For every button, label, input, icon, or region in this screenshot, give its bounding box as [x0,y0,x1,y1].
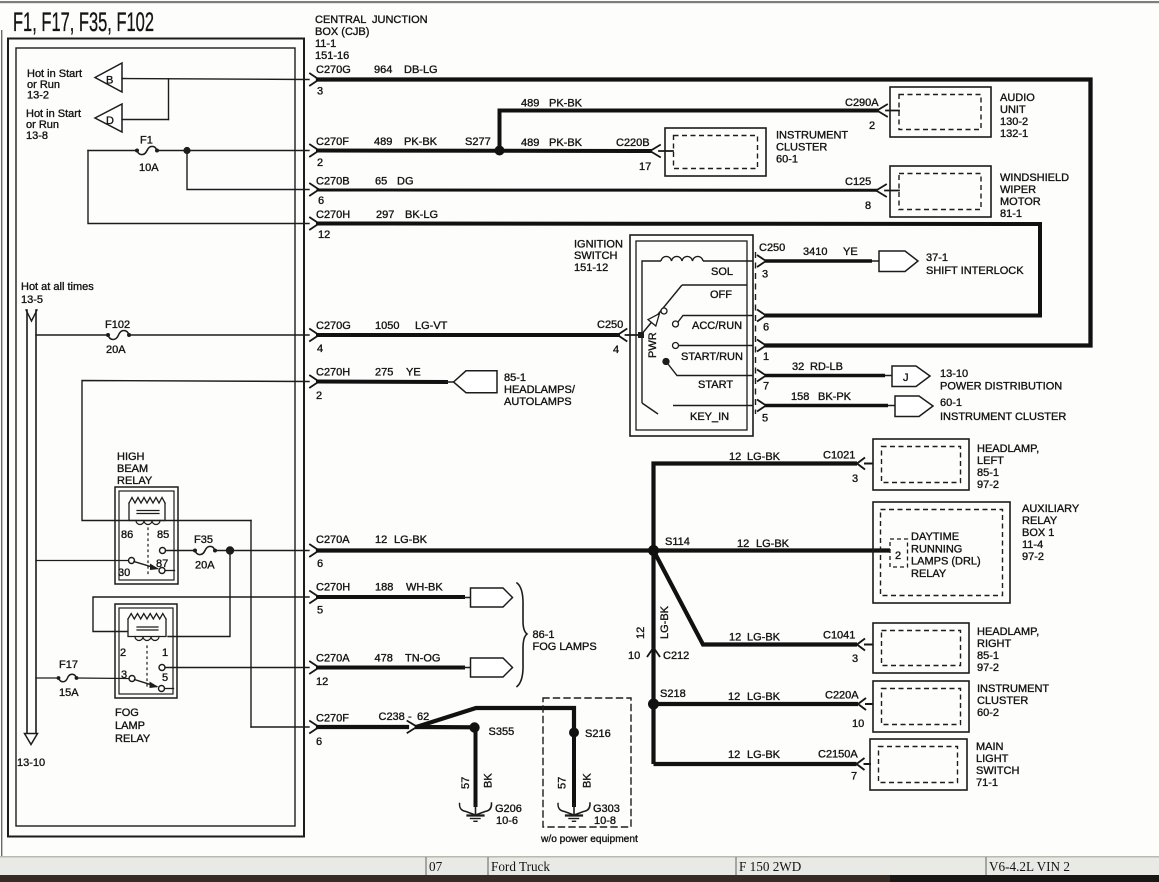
wire left branch down to C270H row [88,151,309,224]
svg-text:7: 7 [763,381,769,393]
svg-text:LEFT: LEFT [977,455,1004,467]
svg-text:3410: 3410 [803,246,827,258]
svg-text:12: 12 [635,627,647,639]
label Hot in Start or Run 13-2 [27,68,82,102]
connector chevron fog lamp feed 2 [471,658,513,677]
svg-text:C270G: C270G [316,64,351,76]
svg-text:3: 3 [852,653,858,665]
svg-text:8: 8 [865,200,871,212]
connector arrow C212 pin 10 [647,648,660,658]
svg-text:3: 3 [762,269,768,281]
svg-text:1: 1 [162,647,168,659]
wire B to C270G pin3 [122,79,309,80]
svg-text:SHIFT INTERLOCK: SHIFT INTERLOCK [926,265,1024,277]
svg-text:KEY_IN: KEY_IN [690,411,729,423]
connector arrow C270A pin 6 [310,545,319,557]
svg-text:97-2: 97-2 [977,662,999,674]
connector arrow C270H pin 2 [310,376,319,388]
svg-text:START/RUN: START/RUN [681,351,743,363]
svg-text:B: B [106,75,113,87]
svg-text:AUDIO: AUDIO [1000,92,1035,104]
relay K2 contact 1 [159,665,165,671]
svg-text:20A: 20A [106,344,126,356]
svg-text:17: 17 [639,161,651,173]
svg-text:LG-VT: LG-VT [415,320,448,332]
svg-text:RELAY: RELAY [117,475,153,487]
connector arrow C270H pin 12 [310,218,319,230]
svg-text:V6-4.2L VIN 2: V6-4.2L VIN 2 [989,859,1070,874]
relay K2 fog lamp box [115,604,177,698]
w/o power equipment dashed box [543,698,631,827]
svg-text:AUTOLAMPS: AUTOLAMPS [504,396,572,408]
wire F35 junction to fog relay coil [168,551,230,637]
svg-text:12: 12 [729,632,741,644]
svg-text:BEAM: BEAM [117,463,148,475]
svg-text:489: 489 [374,136,392,148]
label Hot in Start or Run 13-8 [26,108,81,142]
svg-text:CLUSTER: CLUSTER [977,695,1028,707]
svg-text:F1: F1 [140,135,153,147]
svg-text:MAIN: MAIN [976,741,1004,753]
connector arrow C250 pin 4 [618,329,642,341]
svg-text:85-1: 85-1 [977,467,999,479]
ignition KEY_IN blade [642,403,658,414]
relay K2 contact 3 [129,676,135,682]
ignition wiper blade [641,285,682,335]
svg-text:12: 12 [316,676,328,688]
svg-text:151-12: 151-12 [574,262,608,274]
ignition switch box [630,235,753,436]
relay K1 dotted divider [147,528,149,574]
wire 188 WH-BK to fog coil left [93,597,309,632]
svg-text:C2150A: C2150A [818,749,858,761]
svg-text:C212: C212 [663,650,689,662]
relay K2 contact 5 [159,686,165,692]
wire C270F row to S355 [318,725,407,729]
svg-text:CLUSTER: CLUSTER [776,142,827,154]
relay K2 coil [128,614,166,641]
connector arrow C220A pin 10 [858,698,874,710]
fuse F35 20A [193,534,309,572]
svg-text:C270H: C270H [316,209,350,221]
scan page left edge [1,30,2,856]
svg-text:PWR: PWR [647,332,659,358]
bottom status bar [0,856,1159,875]
ignition switch label [574,239,623,275]
svg-text:2: 2 [316,390,322,402]
svg-text:37-1: 37-1 [926,252,948,264]
svg-text:DB-LG: DB-LG [404,64,438,76]
svg-text:12: 12 [729,451,741,463]
connector chevron J 13-10 power distribution [892,366,930,387]
svg-text:6: 6 [318,195,324,207]
svg-text:C270F: C270F [316,713,349,725]
svg-text:HEADLAMPS/: HEADLAMPS/ [504,384,576,396]
svg-text:Hot at all times: Hot at all times [21,281,94,293]
svg-text:12: 12 [728,749,740,761]
svg-text:86: 86 [121,529,133,541]
wire 275 YE feed from relay coil [82,381,309,521]
svg-text:158: 158 [791,391,809,403]
svg-text:10: 10 [852,718,864,730]
connector arrow C270F pin 6 [310,721,319,733]
connector arrow C250 pin 6 [757,310,766,322]
svg-text:SWITCH: SWITCH [976,765,1019,777]
CJB outer box [8,39,304,837]
svg-text:BK-PK: BK-PK [818,391,852,403]
connector chevron 85-1 headlamps [454,371,498,393]
svg-text:86-1: 86-1 [533,629,555,641]
svg-text:11-4: 11-4 [1022,539,1043,551]
svg-text:S114: S114 [665,536,690,548]
svg-text:SOL: SOL [711,266,733,278]
svg-text:11-1: 11-1 [315,38,336,50]
svg-text:G303: G303 [593,803,620,815]
wire to main light switch [654,762,857,766]
svg-text:3: 3 [317,86,323,98]
svg-text:30: 30 [118,567,130,579]
label FOG LAMP RELAY [115,707,151,745]
svg-text:60-1: 60-1 [940,397,962,409]
wire S114 diagonal to headlamp right [654,551,858,645]
label Hot at all times 13-5 [21,281,94,306]
wire 12 LG-BK to S114 [318,548,654,552]
wire S114 right to DRL relay [654,548,891,552]
fuse F17 15A [36,659,129,699]
relay K1 high beam box [115,487,178,584]
svg-text:LG-BK: LG-BK [747,691,781,703]
svg-text:964: 964 [374,64,392,76]
wire S114 down to S218 [651,551,655,765]
ignition START/RUN contact [673,343,679,349]
svg-text:188: 188 [375,582,393,594]
svg-text:LAMP: LAMP [115,720,145,732]
wire HB coil right to C270F row [250,521,252,728]
svg-text:HEADLAMP,: HEADLAMP, [977,626,1039,638]
wire S114 up to headlamp left [654,464,858,551]
svg-text:85: 85 [157,529,169,541]
svg-text:489: 489 [521,98,539,110]
svg-text:HIGH: HIGH [117,451,145,463]
svg-text:RD-LB: RD-LB [810,361,843,373]
svg-text:132-1: 132-1 [1000,128,1028,140]
svg-text:5: 5 [162,672,168,684]
svg-text:1050: 1050 [375,320,399,332]
svg-text:BOX (CJB): BOX (CJB) [315,26,369,38]
connector chevron fog lamp feed 1 [471,588,513,607]
wire 478 TN-OG to fog lamps connector [318,666,463,670]
svg-text:85-1: 85-1 [977,650,999,662]
wire D horizontal [122,119,169,121]
ground G303 [558,803,620,827]
svg-text:C270H: C270H [316,582,350,594]
ignition OFF contact [682,284,747,286]
svg-text:HEADLAMP,: HEADLAMP, [977,443,1039,455]
connector arrow C1041 pin 3 [857,639,874,651]
wire 188 WH-BK to fog lamps connector [318,595,463,599]
wire 964 DB-LG : C270G3 right, down, to START/RUN pin1 [318,80,1091,346]
svg-text:10-6: 10-6 [496,815,518,827]
svg-text:32: 32 [792,361,804,373]
connector arrow C270G pin 3 [310,74,319,86]
svg-text:BK-LG: BK-LG [405,209,438,221]
audio unit box [890,87,991,137]
svg-text:F1, F17, F35, F102: F1, F17, F35, F102 [13,7,154,37]
svg-text:57: 57 [557,777,569,789]
svg-text:C270F: C270F [316,136,349,148]
svg-text:w/o power equipment: w/o power equipment [540,834,638,845]
svg-text:85-1: 85-1 [504,372,526,384]
svg-text:BK: BK [582,773,594,788]
svg-text:LG-BK: LG-BK [747,632,781,644]
svg-text:97-2: 97-2 [977,479,999,491]
svg-text:3: 3 [852,473,858,485]
svg-text:12: 12 [737,538,749,550]
svg-text:C270B: C270B [316,176,350,188]
ignition PWR node [638,332,644,338]
CJB inner box [16,48,295,826]
headlamp right box [873,623,969,673]
wire S218 to instrument cluster 60-2 [654,702,859,706]
relay K2 switch blade [135,680,157,687]
svg-text:13-10: 13-10 [940,368,968,380]
svg-text:151-16: 151-16 [315,50,349,62]
fuse F102 20A [36,319,309,356]
svg-text:IGNITION: IGNITION [574,239,623,251]
wire ignition inner left vertical [642,261,661,403]
svg-text:10A: 10A [139,162,159,174]
svg-text:POWER DISTRIBUTION: POWER DISTRIBUTION [940,381,1062,393]
ignition ACC/RUN contact [673,321,679,327]
svg-text:13-5: 13-5 [21,294,43,306]
connector arrow C270B pin 6 [310,184,319,196]
svg-text:57: 57 [460,777,472,789]
wire 3410 YE to shift interlock [765,259,872,263]
label HIGH BEAM RELAY [117,451,153,487]
connector arrow C250 pin 1 [757,340,766,352]
svg-text:6: 6 [317,558,323,570]
svg-text:4: 4 [317,343,323,355]
svg-text:C270G: C270G [316,320,351,332]
svg-text:BOX 1: BOX 1 [1022,527,1054,539]
ignition coil SOL [661,256,703,261]
svg-text:65: 65 [375,176,387,188]
power bus double line [25,310,38,745]
svg-text:C220A: C220A [825,690,859,702]
svg-text:12: 12 [375,534,387,546]
svg-text:G206: G206 [495,803,522,815]
svg-text:60-1: 60-1 [776,154,798,166]
svg-text:S355: S355 [489,726,515,738]
connector chevron 60-1 instrument cluster [895,396,933,417]
svg-text:J: J [903,372,909,384]
wire pin 1 to C270A row [165,667,309,669]
svg-text:S216: S216 [585,728,611,740]
svg-text:PK-BK: PK-BK [549,137,583,149]
svg-text:FOG LAMPS: FOG LAMPS [533,641,597,653]
connector arrow C2150A pin 7 [857,758,872,770]
svg-text:INSTRUMENT: INSTRUMENT [977,683,1049,695]
svg-text:C270H: C270H [316,367,350,379]
svg-text:10: 10 [628,650,640,662]
svg-text:LG-BK: LG-BK [756,538,790,550]
wire 489 PK-BK to S277 and C220B [318,149,650,154]
svg-text:07: 07 [429,859,443,874]
relay K1 contact 87 [159,568,165,574]
svg-text:3: 3 [121,669,127,681]
svg-text:81-1: 81-1 [1000,208,1022,220]
svg-text:MOTOR: MOTOR [1000,196,1041,208]
wire SOL to pin 3 [703,260,753,262]
svg-text:13-2: 13-2 [27,90,49,102]
connector triangle B [95,63,122,92]
svg-text:C270A: C270A [316,653,350,665]
svg-text:FOG: FOG [115,707,139,719]
svg-text:WIPER: WIPER [1000,184,1036,196]
svg-text:ACC/RUN: ACC/RUN [692,320,742,332]
wire C270F row left part [251,726,309,728]
main light switch box [870,739,967,790]
svg-text:RELAY: RELAY [1022,515,1058,527]
svg-text:D: D [106,115,114,127]
svg-text:1: 1 [763,351,769,363]
node F35 junction [226,546,234,554]
svg-text:Ford Truck: Ford Truck [491,859,550,874]
svg-text:PK-BK: PK-BK [549,98,583,110]
svg-text:478: 478 [375,653,393,665]
svg-text:6: 6 [763,322,769,334]
svg-text:PK-BK: PK-BK [404,136,438,148]
svg-text:RUNNING: RUNNING [911,543,962,555]
connector arrow C238 mid-wire [408,721,418,733]
svg-text:WH-BK: WH-BK [406,582,443,594]
svg-text:C125: C125 [845,176,871,188]
wire 297 BK-LG : right, down, to ACC/RUN pin6 [318,224,1040,316]
connector arrow C270A pin 12 [310,662,319,674]
svg-text:DAYTIME: DAYTIME [911,531,959,543]
svg-text:4: 4 [613,344,619,356]
svg-text:INSTRUMENT CLUSTER: INSTRUMENT CLUSTER [940,411,1066,423]
svg-text:C270A: C270A [316,534,350,546]
svg-text:2: 2 [869,120,875,132]
svg-text:5: 5 [762,413,768,425]
node S218 [648,699,659,710]
svg-text:13-8: 13-8 [26,130,48,142]
svg-text:71-1: 71-1 [976,777,998,789]
svg-text:10-8: 10-8 [594,815,616,827]
svg-text:C238: C238 [379,711,405,723]
ignition START contact [663,359,669,365]
svg-text:CENTRAL: CENTRAL [315,14,366,26]
instrument cluster 60-1 box [665,128,766,176]
wire 65 DG to wiper motor [318,189,876,192]
relay K1 contact 30 [129,558,135,564]
instrument cluster 60-2 box [873,681,969,732]
svg-text:S277: S277 [465,136,491,148]
connector arrow C125 pin 8 (wiper motor) [876,185,899,197]
connector arrow C270F pin 2 [310,145,319,157]
svg-text:5: 5 [317,605,323,617]
svg-text:UNIT: UNIT [1000,104,1026,116]
ignition dashed connector line C250 [755,252,757,414]
wire junction down to C270B row [187,151,309,190]
svg-text:OFF: OFF [710,289,732,301]
svg-text:12: 12 [728,691,740,703]
brace fog lamps [517,583,527,687]
fuse F1 10A [88,135,309,175]
svg-text:TN-OG: TN-OG [405,653,440,665]
svg-text:YE: YE [843,246,858,258]
svg-text:20A: 20A [195,560,215,572]
connector arrow C270H pin 5 [310,591,319,603]
svg-text:C1021: C1021 [823,450,855,462]
svg-text:C290A: C290A [845,97,879,109]
svg-text:AUXILIARY: AUXILIARY [1022,503,1080,515]
svg-text:2: 2 [895,550,901,562]
wire S355 to ground [474,727,478,805]
relay K1 switch blade [134,562,157,569]
svg-text:2: 2 [317,157,323,169]
wire 158 BK-PK to instrument cluster [765,404,888,408]
auxiliary relay box 1 [873,502,1010,603]
wire branch vertical to D [168,79,170,120]
connector triangle D [95,104,122,132]
svg-text:C250: C250 [597,319,623,331]
svg-text:LG-BK: LG-BK [659,605,671,639]
wire 32 RD-LB to power distribution [765,374,885,378]
wire pin 87 stub [165,570,175,572]
connector arrow C250 pin 3 [757,255,766,267]
svg-text:YE: YE [406,367,421,379]
svg-text:LG-BK: LG-BK [747,749,781,761]
relay K1 contact 85 [160,548,166,554]
svg-text:12: 12 [318,229,330,241]
svg-text:RIGHT: RIGHT [977,638,1012,650]
svg-text:C1041: C1041 [823,630,855,642]
connector arrow C270G pin 4 [310,329,319,341]
wire bus to pin 30 [36,560,129,562]
svg-text:JUNCTION: JUNCTION [372,14,428,26]
svg-text:LIGHT: LIGHT [976,753,1009,765]
connector chevron 37-1 shift interlock [879,251,918,272]
svg-text:RELAY: RELAY [115,733,151,745]
headlamp left box [873,439,969,490]
svg-text:F102: F102 [105,319,130,331]
connector arrow C250 pin 5 [757,400,766,412]
ground G206 [459,803,521,827]
node S114 [648,545,659,556]
wire 489 PK-BK branch to audio unit [500,111,878,151]
windshield wiper motor box [890,166,991,217]
svg-text:F35: F35 [194,534,213,546]
connector arrow C250 pin 7 [757,370,766,382]
wire 62 diagonal to w/o power branch [417,708,574,732]
wire pin 5 stub [165,688,174,690]
connector arrow C1021 pin 3 [857,458,874,470]
svg-text:DG: DG [397,176,414,188]
DRL relay pin 2 dashed box [890,539,908,567]
svg-text:15A: 15A [59,687,79,699]
svg-text:6: 6 [316,736,322,748]
svg-text:SWITCH: SWITCH [574,250,617,262]
wire pin 85 to F35 [166,550,196,552]
svg-text:C220B: C220B [616,137,650,149]
wire S216 to ground [572,733,576,806]
svg-text:F17: F17 [59,659,78,671]
svg-text:60-2: 60-2 [977,707,999,719]
svg-text:F 150 2WD: F 150 2WD [739,859,801,874]
svg-text:C250: C250 [759,242,785,254]
